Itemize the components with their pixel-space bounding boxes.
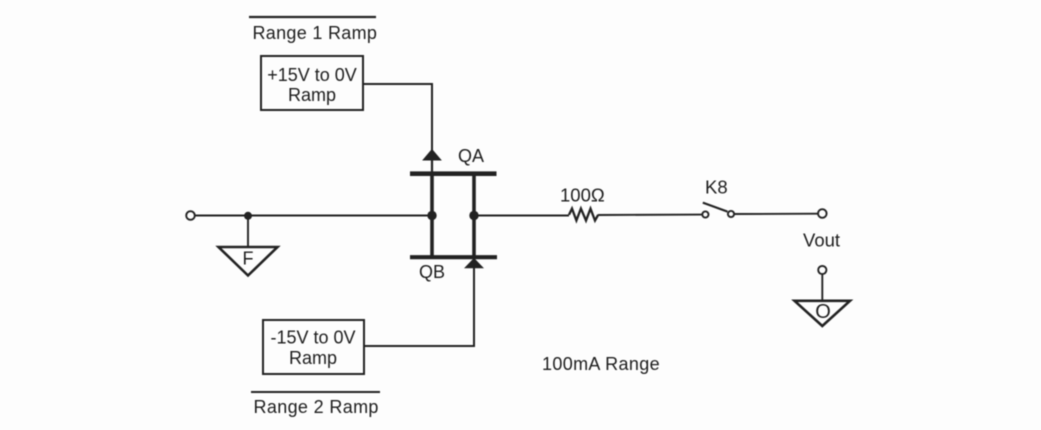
wire from B2 to QB gate [364, 345, 475, 347]
svg-text:O: O [815, 301, 831, 323]
svg-text:Ramp: Ramp [288, 85, 336, 105]
ramp source box B2 (-15V to 0V Ramp) [263, 320, 364, 374]
wire O terminal to ground [821, 274, 823, 300]
svg-text:Range 2 Ramp: Range 2 Ramp [254, 397, 379, 417]
wire QB gate down [473, 266, 475, 346]
wire QB to resistor [474, 215, 569, 217]
svg-text:-15V to 0V: -15V to 0V [270, 328, 355, 348]
QA gate arrow [423, 150, 441, 160]
switch K8 left contact [702, 211, 708, 217]
wire arrow to top bar [431, 158, 433, 172]
svg-text:QB: QB [419, 262, 445, 282]
transistor QB bottom bar [410, 255, 497, 259]
ground O (output common) [795, 301, 851, 326]
label +15V to 0V Ramp [267, 65, 357, 105]
svg-text:100mA Range: 100mA Range [542, 354, 660, 374]
QB gate arrow [465, 259, 483, 268]
svg-text:K8: K8 [705, 177, 728, 198]
input terminal [186, 211, 195, 220]
wire resistor to switch [598, 214, 702, 216]
label -15V to 0V Ramp [270, 328, 355, 369]
wire from B1 to QA gate [363, 84, 432, 151]
ground O terminal [818, 266, 826, 274]
node QA/main junction [427, 211, 436, 220]
ground F (frame) [219, 247, 278, 276]
ramp source box B1 (+15V to 0V Ramp) [261, 56, 363, 110]
svg-text:+15V to 0V: +15V to 0V [267, 65, 357, 85]
switch K8 right contact [728, 211, 734, 217]
wire switch to output terminal [734, 213, 818, 215]
QA left channel wire [430, 176, 434, 256]
svg-text:F: F [243, 249, 254, 269]
overline for Range 2 Ramp [251, 391, 380, 393]
svg-text:Vout: Vout [803, 230, 840, 251]
switch K8 blade [703, 203, 728, 212]
transistor QA top bar [410, 171, 497, 176]
overline for Range 1 Ramp [249, 16, 376, 18]
output terminal Vout [818, 209, 827, 218]
svg-text:Ramp: Ramp [289, 348, 337, 368]
wire junction to F ground [247, 216, 249, 247]
node F junction [244, 212, 252, 220]
svg-text:Range 1 Ramp: Range 1 Ramp [253, 23, 378, 43]
node QB/main junction [469, 211, 478, 220]
QA right channel wire [472, 176, 476, 256]
resistor 100ohm [569, 209, 598, 221]
wire input to QA [195, 215, 430, 217]
svg-text:100Ω: 100Ω [560, 185, 605, 206]
svg-text:QA: QA [458, 146, 484, 166]
